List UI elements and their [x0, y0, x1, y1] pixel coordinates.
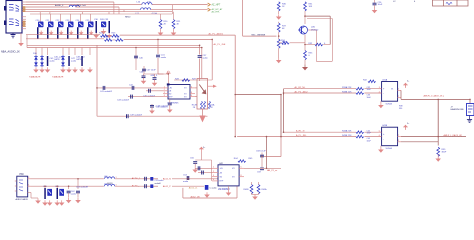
svg-text:AL62_P: AL62_P [163, 185, 171, 188]
pink ground under JACK1 [20, 33, 22, 41]
cap C62 with ground [68, 186, 70, 189]
feedback resistor R28 R29 above IC1 [174, 79, 212, 81]
svg-text:10uF: 10uF [367, 133, 372, 135]
speaker box red outline [197, 79, 208, 110]
svg-text:AB_PJ_xx: AB_PJ_xx [267, 169, 278, 172]
svg-text:SD: SD [220, 177, 223, 179]
speaker arrow inside [199, 85, 205, 93]
vertical wire x97 down-left side of box [96, 45, 98, 116]
resistors R45A R45B with ground [251, 182, 253, 185]
ESD diode D23 with cap C23 [70, 14, 72, 22]
wire AL_P2 y93 to opamp1 [284, 92, 357, 94]
bus y94.5 from x235.2 to x281 [235, 94, 281, 96]
svg-text:7: 7 [398, 135, 399, 137]
svg-text:R43B 22K: R43B 22K [342, 135, 352, 137]
svg-text:2K: 2K [193, 107, 196, 109]
svg-text:C47 10uF: C47 10uF [147, 70, 157, 72]
svg-text:10K: 10K [309, 6, 313, 8]
wire row 2 y186.2 with pin [28, 185, 31, 187]
svg-text:5: 5 [191, 86, 192, 88]
vertical x266.5 from mix wire down to IC2 out [266, 137, 268, 169]
wire drops from top rows [113, 2, 115, 14]
svg-text:AMLR_1 (JACK_W_): AMLR_1 (JACK_W_) [424, 95, 445, 98]
connector JACK1 switch symbols [9, 5, 19, 12]
grounds under cluster 1 [33, 67, 39, 72]
svg-text:AMLR_L (JACK_W): AMLR_L (JACK_W) [444, 134, 463, 137]
svg-text:BYP: BYP [220, 181, 225, 183]
svg-text:R45B: R45B [244, 189, 250, 191]
svg-text:-IN: -IN [220, 172, 223, 174]
wire y39.4 to corner x212.2 then down - net AL_PL_JSE [124, 38, 213, 40]
pin name text blocks orange [23, 6, 26, 12]
svg-text:AGND_F: AGND_F [55, 4, 64, 7]
junction dots [280, 94, 282, 96]
svg-text:AL_PL_JSE: AL_PL_JSE [214, 43, 226, 46]
resistor R35 with dark ground [304, 45, 306, 51]
cap C26 with pink ground [374, 0, 376, 3]
resistor R39 with pink ground [437, 147, 440, 156]
cap C63 with ground [77, 179, 79, 189]
ESD diode D25 with cap C25 [90, 14, 92, 22]
ground under JACK1 [12, 33, 14, 35]
svg-text:5+: 5+ [407, 81, 410, 83]
svg-text:+C48 audioLR: +C48 audioLR [155, 105, 168, 107]
cap C58 [261, 153, 263, 169]
svg-text:390: 390 [399, 108, 402, 110]
svg-text:4K: 4K [282, 28, 285, 30]
bottom rail y116.2 [97, 115, 208, 117]
connector P30 body [17, 176, 28, 197]
wire y38.8 from JACK1 to resistor R24 [26, 38, 104, 40]
dual diode D31 [40, 55, 44, 67]
wire row y2 [26, 1, 114, 3]
svg-text:CA7R: CA7R [54, 58, 60, 61]
svg-text:C41 audioLR: C41 audioLR [100, 91, 113, 93]
wire y132.2 to opamp2 [284, 131, 357, 133]
IC1 amplifier box U40 [167, 83, 170, 85]
svg-text:AL62_N: AL62_N [163, 178, 171, 181]
svg-text:1: 1 [28, 185, 29, 187]
resistor R38 with pink ground [278, 36, 280, 39]
svg-text:6: 6 [379, 135, 380, 137]
svg-text:C44: C44 [140, 72, 145, 74]
wire MIC_JSENSE [243, 35, 277, 37]
svg-text:audio: audio [71, 193, 77, 195]
svg-text:-: - [383, 138, 384, 141]
svg-text:10uF: 10uF [378, 4, 383, 6]
svg-text:SLRxB: SLRxB [386, 103, 393, 105]
svg-text:L2: L2 [393, 1, 396, 3]
svg-text:R45: R45 [249, 158, 254, 160]
pink ground under IC2 [228, 186, 230, 191]
svg-text:V1: V1 [391, 89, 393, 91]
svg-text:audio: audio [183, 181, 189, 183]
cap on row2 [143, 185, 158, 187]
wire row y11.7 [26, 11, 172, 13]
cap C30 bar with ground [96, 21, 98, 33]
svg-text:A_R1_N: A_R1_N [296, 130, 305, 133]
input caps left of IC1 pin1 [97, 87, 163, 89]
svg-text:6: 6 [191, 95, 192, 97]
svg-text:VO: VO [232, 177, 235, 179]
svg-text:5: 5 [379, 131, 380, 133]
wire under Q30 and H resistor R32 [304, 35, 306, 45]
svg-text:1: 1 [213, 167, 214, 169]
svg-text:C40: C40 [139, 58, 144, 60]
svg-text:-IN: -IN [169, 91, 172, 93]
wire into jack J7 [469, 99, 471, 103]
svg-text:AZ_HPL: AZ_HPL [212, 11, 221, 14]
svg-text:J7: J7 [451, 107, 454, 109]
svg-text:10uF: 10uF [367, 140, 372, 142]
vertical x438.2 mix down [437, 99, 439, 136]
svg-text:4: 4 [213, 179, 214, 181]
svg-text:C audio: C audio [210, 188, 218, 190]
svg-text:2: 2 [213, 171, 214, 173]
svg-text:1K: 1K [282, 6, 285, 8]
svg-text:7: 7 [398, 96, 399, 98]
svg-text:0: 0 [309, 55, 311, 57]
vcc arrow IC2 [200, 152, 202, 158]
svg-text:NR20: NR20 [125, 17, 131, 19]
vertical x199.6 from y47.5 to speaker box with cap C57 [199, 45, 201, 54]
svg-text:NBA_AUDIO_JK: NBA_AUDIO_JK [1, 50, 20, 53]
svg-text:AZ_HPT: AZ_HPT [212, 4, 221, 7]
svg-text:C56: C56 [190, 158, 195, 160]
svg-text:R33A 22K: R33A 22K [342, 86, 352, 89]
ESD diode D22 with cap C22 [60, 14, 62, 22]
IC2 output wire right [244, 167, 281, 169]
svg-text:5+: 5+ [203, 147, 206, 149]
ESD diode D21 with cap C21 [50, 14, 52, 22]
vertical x158 power feed with cap C41 [157, 39, 159, 54]
svg-text:2: 2 [28, 177, 29, 179]
vcc arrow for opamp2 [405, 126, 407, 129]
cap C47 bar [68, 56, 70, 66]
svg-text:VO: VO [184, 93, 187, 95]
svg-text:+: + [383, 133, 385, 136]
wire from x281 down to C58 [280, 137, 282, 157]
wire row y4.6 with inductor L20 to connector AZ_HPT [26, 4, 142, 6]
svg-text:R45A: R45A [262, 188, 268, 191]
vertical x235.2 from y35.1 down to y136.6 [234, 35, 236, 137]
grounds under cluster 2 [60, 67, 66, 72]
svg-text:R33B 22K: R33B 22K [342, 91, 352, 93]
svg-text:3: 3 [164, 92, 165, 94]
svg-text:4K: 4K [177, 23, 180, 25]
opamp2 output wires [401, 136, 438, 138]
svg-text:CA7R: CA7R [76, 58, 82, 61]
svg-text:AL62_JL: AL62_JL [189, 187, 198, 190]
resistor R36 top with ground [277, 2, 280, 11]
blue diamond row1 [150, 177, 153, 181]
svg-text:Q30: Q30 [311, 27, 316, 29]
ESD diode D20 with cap C20 [40, 14, 42, 22]
resistor R21 with ground [173, 12, 175, 20]
svg-text:AL_PL_JACK1: AL_PL_JACK1 [209, 33, 224, 36]
svg-text:D26 C33: D26 C33 [100, 19, 109, 21]
opamp1 box U41A [382, 82, 398, 102]
pink ground right of P30 [28, 192, 31, 194]
svg-text:C58 0.1uF: C58 0.1uF [256, 151, 266, 153]
pink big arrow down under speaker [202, 109, 204, 116]
svg-text:audio: audio [203, 57, 209, 59]
dual diode D32 [61, 55, 65, 67]
svg-text:audio8: audio8 [155, 183, 162, 185]
bottom caps cluster A [44, 188, 46, 199]
pink ground under opamp2 [380, 146, 382, 148]
svg-text:C42: C42 [129, 84, 134, 86]
cap C56 with pink ground [200, 158, 202, 160]
transistor Q30 [300, 26, 308, 34]
svg-text:C49 audioLR: C49 audioLR [130, 115, 143, 117]
svg-text:AZ_HP_AT: AZ_HP_AT [212, 8, 224, 11]
wire y35.1 to corner x237.1 then down - net AL_PL_JACK1 [120, 34, 236, 36]
svg-text:VO: VO [184, 96, 187, 98]
cap on row1 [143, 178, 158, 180]
svg-text:VO: VO [184, 88, 187, 90]
second vertical to speaker box top [201, 48, 203, 79]
svg-text:VO: VO [232, 168, 235, 170]
wire row 1 y178.8 with pin [28, 178, 31, 180]
svg-text:AL62_JN: AL62_JN [191, 196, 200, 199]
drops from y47.5 wire to ESD row 2 [35, 48, 37, 56]
caps on IC2 input pins [195, 167, 212, 169]
svg-text:audio: audio [161, 57, 167, 59]
cap C48 with ground above rail [151, 104, 153, 105]
svg-text:8: 8 [191, 92, 192, 94]
connector JACK1 body [6, 1, 22, 34]
pink ground under opamp1 [380, 101, 382, 103]
svg-text:10uF: 10uF [367, 97, 372, 99]
pink off-page arrow at speaker box right [208, 85, 214, 87]
svg-text:300F: 300F [442, 152, 447, 154]
cap C49 on rail with label [127, 114, 129, 118]
svg-text:-: - [383, 93, 384, 96]
wire y136.6 to opamp2 [237, 136, 356, 138]
svg-text:2: 2 [398, 140, 399, 142]
vertical x211.5 into IC2 pins [211, 160, 213, 181]
svg-text:BYP: BYP [169, 96, 173, 98]
vertical x212.2 from y39.4 down to feedback row [211, 39, 213, 80]
svg-text:R44: R44 [234, 158, 239, 160]
vertical x283.5 up to y88.7 [283, 89, 285, 95]
svg-text:3: 3 [213, 175, 214, 177]
wire row y7 with inline inductor FB20 [26, 6, 69, 8]
svg-text:10uF: 10uF [367, 89, 372, 91]
svg-text:U41A: U41A [382, 78, 388, 81]
navy ground under J7 [469, 116, 471, 118]
svg-text:+IN: +IN [220, 168, 224, 170]
svg-text:R42: R42 [363, 79, 368, 81]
svg-text:AL_R2_NL: AL_R2_NL [295, 86, 306, 89]
svg-text:TM 4.7uH: TM 4.7uH [77, 5, 87, 7]
svg-text:2K: 2K [164, 23, 167, 25]
cap C40 top branch [135, 48, 137, 67]
wire stubs from IC1 out to speaker box [195, 87, 197, 89]
svg-text:2: 2 [164, 89, 165, 91]
connector JACK1 pin stubs [22, 1, 26, 3]
wire row y9.7 with inductor L21 to connector AZ_HPL [26, 9, 140, 11]
cap C53 above row [187, 176, 189, 180]
revision table top right [433, 0, 469, 6]
wire y198 with red label AL62_JN [182, 188, 184, 198]
svg-text:SD: SD [169, 93, 172, 95]
svg-text:5+: 5+ [407, 123, 410, 125]
cap C59 with red text [260, 168, 264, 170]
svg-text:+IN: +IN [169, 88, 173, 90]
svg-text:2: 2 [379, 91, 380, 93]
long double wires y45.3 y47.5 [27, 44, 200, 46]
svg-text:3: 3 [379, 87, 380, 89]
speaker coil squiggles blue [201, 102, 203, 109]
svg-text:C63 audioJR: C63 audioJR [76, 187, 89, 189]
svg-text:AUDIOJACK: AUDIOJACK [16, 198, 29, 201]
vertical wire x242.6 from top [242, 0, 244, 36]
svg-text:HEADPHONE: HEADPHONE [451, 108, 465, 111]
svg-text:C59: C59 [257, 172, 262, 174]
wire y34.7 from JACK1 to resistor R22 [26, 34, 100, 36]
vertical x281 down to y136.6 [280, 95, 282, 137]
svg-text:+: + [383, 88, 385, 91]
svg-text:AL75L_: AL75L_ [132, 185, 140, 188]
svg-text:74AAGA7R: 74AAGA7R [52, 76, 64, 79]
svg-text:1: 1 [164, 86, 165, 88]
svg-text:C43 audioLR: C43 audioLR [117, 99, 130, 101]
svg-text:A_PL_JNL: A_PL_JNL [296, 134, 307, 137]
svg-text:4: 4 [164, 95, 165, 97]
resistor R31 top col2 [304, 2, 307, 11]
svg-text:R12A: R12A [209, 103, 215, 106]
svg-text:R43A 22K: R43A 22K [342, 130, 352, 133]
bus wire y14 feeding ESD row [30, 13, 172, 15]
bypass cap under IC1 with ground [169, 99, 171, 103]
cap on pin4 wire [128, 96, 163, 98]
ESD diode D24 with cap C24 [80, 14, 82, 22]
cap C45 bar [47, 56, 49, 66]
svg-text:1: 1 [398, 89, 399, 91]
svg-text:74AAGA7R: 74AAGA7R [29, 76, 41, 79]
cap C47 polar on x144 [143, 66, 145, 74]
power rail and tap for IC1 [144, 73, 169, 75]
svg-text:AL75L_1: AL75L_1 [132, 177, 142, 180]
svg-text:D30: D30 [33, 53, 38, 55]
svg-text:MIC_JSENSE: MIC_JSENSE [252, 34, 266, 36]
svg-text:2K: 2K [210, 107, 213, 109]
wire AL_R2 y88.7 to opamp1 [284, 88, 357, 90]
opamp1 output wire y99.4 to jack [400, 90, 402, 99]
svg-text:AL_P2_JAC2: AL_P2_JAC2 [295, 90, 309, 93]
vcc arrow for opamp1 [405, 84, 407, 87]
svg-text:5: 5 [241, 167, 242, 169]
svg-text:SLRxB: SLRxB [386, 148, 393, 150]
resistor R37 [278, 22, 280, 23]
svg-text:C30: C30 [94, 19, 99, 21]
wire pair y16.1 y18.5 to verticals x330 x332 [305, 15, 330, 17]
bottom caps cluster B [57, 188, 59, 199]
navy component with pink ground bottom [205, 185, 209, 190]
resistor R20 with ground [160, 14, 162, 20]
svg-text:L20: L20 [137, 1, 141, 3]
svg-text:2N7002: 2N7002 [311, 30, 319, 32]
svg-text:4: 4 [414, 1, 416, 3]
cap C46 on pin2 [146, 90, 163, 92]
svg-text:8: 8 [241, 175, 242, 177]
headphone jack J7 [467, 104, 474, 116]
